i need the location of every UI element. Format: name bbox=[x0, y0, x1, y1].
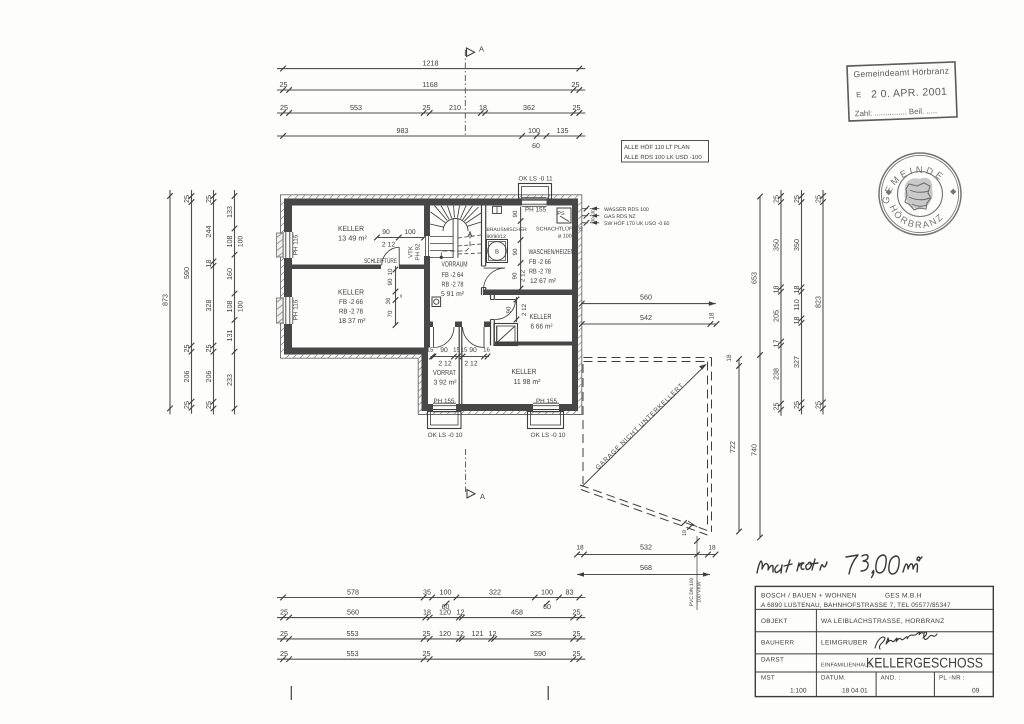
svg-text:25: 25 bbox=[771, 195, 780, 203]
svg-text:983: 983 bbox=[397, 126, 409, 135]
svg-text:120: 120 bbox=[439, 629, 451, 638]
svg-text:25: 25 bbox=[204, 401, 213, 409]
bottom dimension chain 25-553-25-120-12-121-12-325-25 bbox=[277, 629, 585, 642]
svg-text:327: 327 bbox=[792, 356, 801, 368]
door to KELLER 6.66 bbox=[495, 300, 516, 320]
svg-text:1:100: 1:100 bbox=[790, 688, 807, 695]
title block DATUM bbox=[821, 675, 868, 695]
svg-text:135: 135 bbox=[557, 126, 569, 135]
svg-text:322: 322 bbox=[489, 588, 501, 597]
svg-text:553: 553 bbox=[347, 629, 359, 638]
svg-text:328: 328 bbox=[204, 300, 213, 312]
title block PL-NR bbox=[939, 675, 980, 695]
svg-text:100: 100 bbox=[238, 236, 245, 248]
bottom dimension chain 25-560-18-120-12-458-25 bbox=[277, 608, 585, 621]
interior wall west of KELLER 6.66 (thin) bbox=[491, 295, 495, 346]
svg-text:18: 18 bbox=[709, 312, 716, 320]
left dimension chain 25-244-18-328-25-206-25 bbox=[204, 190, 216, 414]
garage corner drain detail bbox=[681, 520, 702, 610]
exterior wall east bbox=[572, 199, 578, 412]
svg-text:30: 30 bbox=[591, 217, 597, 223]
svg-text:350: 350 bbox=[792, 239, 801, 251]
PS shaft box at east wall bbox=[557, 208, 571, 223]
note box ALLE HOEF / ALLE RDS bbox=[622, 141, 709, 163]
room label KELLER 13.49 bbox=[338, 224, 368, 243]
fold mark right bbox=[547, 686, 549, 700]
window west wall upper PH116 bbox=[277, 232, 293, 258]
svg-text:90/90/12: 90/90/12 bbox=[487, 234, 507, 240]
svg-text:532: 532 bbox=[640, 543, 652, 552]
svg-text:PS: PS bbox=[557, 211, 565, 217]
svg-text:25: 25 bbox=[280, 80, 288, 89]
svg-text:BRAUSMISCHER: BRAUSMISCHER bbox=[487, 227, 528, 233]
window south wall (KELLER 11.98) PH155 bbox=[533, 403, 559, 412]
svg-text:25: 25 bbox=[572, 80, 580, 89]
svg-text:18 37 m²: 18 37 m² bbox=[339, 318, 367, 325]
svg-text:590: 590 bbox=[534, 649, 546, 658]
right dimension chain 653 / 740 bbox=[750, 194, 763, 541]
secondary window-width labels 100 bbox=[238, 236, 245, 313]
svg-text:VORRAUM: VORRAUM bbox=[442, 260, 468, 269]
svg-text:DATUM.: DATUM. bbox=[821, 675, 846, 682]
svg-text:108: 108 bbox=[225, 236, 234, 248]
svg-text:≈: ≈ bbox=[398, 294, 405, 298]
svg-text:120: 120 bbox=[439, 608, 451, 617]
svg-text:25: 25 bbox=[280, 629, 288, 638]
top dimension chain 983-100-135 bbox=[277, 126, 585, 139]
svg-text:FB -2 64: FB -2 64 bbox=[442, 272, 464, 279]
svg-text:90: 90 bbox=[512, 272, 519, 279]
svg-text:740: 740 bbox=[750, 444, 759, 456]
bottom dimension chain 578-35-100-322-100-83 bbox=[277, 588, 585, 601]
service connection GAS bbox=[582, 213, 636, 220]
svg-text:25: 25 bbox=[182, 345, 191, 353]
svg-text:25: 25 bbox=[204, 195, 213, 203]
svg-text:18: 18 bbox=[792, 286, 801, 294]
svg-text:35: 35 bbox=[423, 588, 431, 597]
svg-text:108: 108 bbox=[225, 301, 234, 313]
svg-text:90: 90 bbox=[512, 210, 519, 217]
svg-text:553: 553 bbox=[347, 649, 359, 658]
interior partition between VORRAT and KELLER 11.98 bbox=[459, 327, 462, 404]
svg-text:RB -2 78: RB -2 78 bbox=[442, 282, 464, 289]
svg-text:PH 155: PH 155 bbox=[525, 207, 547, 214]
svg-text:PVC DN 100: PVC DN 100 bbox=[689, 577, 695, 606]
section marker A (top) bbox=[465, 45, 484, 138]
svg-text:KELLER: KELLER bbox=[512, 367, 537, 376]
svg-text:18: 18 bbox=[726, 354, 733, 362]
svg-text:653: 653 bbox=[750, 272, 759, 284]
svg-text:VORRAT: VORRAT bbox=[433, 368, 456, 377]
svg-text:325: 325 bbox=[530, 629, 542, 638]
svg-text:SCHLEIFTÜRE: SCHLEIFTÜRE bbox=[364, 257, 397, 265]
svg-text:15: 15 bbox=[453, 347, 460, 354]
garage diagonal arrow line bbox=[582, 364, 707, 487]
svg-text:25: 25 bbox=[573, 103, 581, 112]
svg-text:83: 83 bbox=[566, 588, 574, 597]
svg-text:25: 25 bbox=[573, 629, 581, 638]
svg-text:RB -2 78: RB -2 78 bbox=[339, 309, 363, 316]
right dimension chain 25-350-18-110-18-327-25 bbox=[792, 190, 804, 414]
svg-text:206: 206 bbox=[204, 371, 213, 383]
fold mark left bbox=[290, 686, 292, 700]
svg-text:25: 25 bbox=[182, 195, 191, 203]
svg-text:FB -2 66: FB -2 66 bbox=[339, 299, 363, 306]
svg-text:10: 10 bbox=[387, 268, 394, 275]
svg-text:25: 25 bbox=[280, 608, 288, 617]
service connection SW bbox=[582, 220, 670, 227]
svg-text:25: 25 bbox=[813, 195, 822, 203]
svg-text:EINFAMILIENHAUS: EINFAMILIENHAUS bbox=[821, 663, 872, 669]
label shower 90/90/12 bbox=[487, 227, 528, 240]
svg-text:KELLER: KELLER bbox=[338, 224, 365, 233]
garage outline west edge dashed bbox=[582, 364, 584, 484]
room label KELLER 18.37 bbox=[338, 288, 366, 326]
svg-text:238: 238 bbox=[771, 368, 780, 380]
svg-text:90: 90 bbox=[440, 347, 448, 354]
title block row separators bbox=[755, 609, 993, 672]
svg-text:2 12: 2 12 bbox=[464, 361, 477, 368]
svg-text:100: 100 bbox=[404, 229, 416, 236]
vertical dim chain in KELLER 18.37 doorway bbox=[385, 266, 405, 328]
right dimension chain 25-823-25 bbox=[813, 190, 825, 414]
svg-text:25: 25 bbox=[423, 103, 431, 112]
bottom dimension chain 25-553-25-590-25 bbox=[277, 649, 585, 662]
svg-text:25: 25 bbox=[573, 608, 581, 617]
svg-text:ALLE RDS 100 LK USD -100: ALLE RDS 100 LK USD -100 bbox=[624, 154, 702, 161]
svg-text:131: 131 bbox=[225, 330, 234, 342]
room label KELLER 11.98 bbox=[512, 367, 542, 386]
svg-text:90: 90 bbox=[512, 248, 519, 255]
top dimension chain 25-1168-25 bbox=[277, 80, 585, 93]
svg-text:12: 12 bbox=[457, 608, 465, 617]
svg-text:160: 160 bbox=[225, 268, 234, 280]
interior load wall west of stair hall bbox=[424, 206, 430, 348]
left dimension chain 25-590-25-206-25 bbox=[182, 190, 194, 414]
svg-text:PH 155: PH 155 bbox=[433, 398, 455, 405]
svg-text:1168: 1168 bbox=[422, 80, 437, 89]
svg-text:60: 60 bbox=[532, 143, 540, 150]
svg-text:90: 90 bbox=[506, 306, 513, 313]
garage dim 568 bbox=[577, 563, 710, 577]
svg-text:BOSCH / BAUEN + WOHNEN: BOSCH / BAUEN + WOHNEN bbox=[761, 593, 857, 600]
svg-text:PH 155: PH 155 bbox=[536, 398, 558, 405]
svg-text:ø 100: ø 100 bbox=[558, 234, 572, 240]
garage outline east edge (double dashed) bbox=[708, 358, 712, 533]
svg-text:133: 133 bbox=[225, 206, 234, 218]
interior wall between KELLER 13.49 and KELLER 18.37 bbox=[292, 265, 381, 270]
service dim 30/30 rotated bbox=[591, 209, 597, 223]
svg-text:90: 90 bbox=[387, 278, 394, 285]
svg-text:30: 30 bbox=[591, 209, 597, 215]
dim chain doors VORRAT / KELLER 11.98 bbox=[427, 347, 491, 368]
svg-text:25: 25 bbox=[204, 345, 213, 353]
door stair-hall to boiler area bbox=[484, 268, 505, 289]
door VORRAUM to KELLER 11.98 bbox=[463, 327, 485, 348]
exterior wall south bbox=[422, 404, 579, 411]
left dimension chain 133-108-160-108-131-233 (window axes) bbox=[225, 190, 237, 414]
svg-text:578: 578 bbox=[347, 588, 359, 597]
svg-text:15: 15 bbox=[461, 347, 468, 354]
svg-text:25: 25 bbox=[182, 401, 191, 409]
svg-text:2 12: 2 12 bbox=[520, 269, 527, 282]
svg-text:18: 18 bbox=[479, 103, 487, 112]
svg-text:458: 458 bbox=[511, 608, 523, 617]
svg-text:25: 25 bbox=[280, 649, 288, 658]
svg-text:PH 116: PH 116 bbox=[293, 234, 300, 255]
svg-text:873: 873 bbox=[160, 294, 169, 306]
shower tray 90/90 with boiler circle B bbox=[487, 240, 508, 263]
svg-text:350: 350 bbox=[771, 239, 780, 251]
top dimension chain 25-553-25-210-18-362-25 bbox=[277, 103, 585, 116]
interior wall south of KELLER 6.66 bbox=[495, 342, 572, 346]
svg-text:GAS RDS NZ: GAS RDS NZ bbox=[604, 214, 636, 220]
floor drain in VORRAUM bbox=[432, 297, 441, 307]
exterior wall south of west wing bbox=[284, 348, 428, 355]
svg-text:OK LS -0 10: OK LS -0 10 bbox=[428, 432, 463, 439]
svg-text:A: A bbox=[480, 492, 485, 501]
svg-text:11 98 m²: 11 98 m² bbox=[514, 377, 542, 386]
garage vertical dim 722 with 18 bbox=[726, 354, 742, 534]
svg-text:90: 90 bbox=[382, 229, 390, 236]
svg-text:100: 100 bbox=[541, 588, 553, 597]
title block MST bbox=[761, 675, 807, 695]
stair flight with winders bbox=[430, 206, 481, 259]
exterior wall north bbox=[284, 199, 578, 206]
svg-text:1218: 1218 bbox=[423, 59, 439, 68]
svg-text:18: 18 bbox=[576, 545, 584, 552]
room label VORRAT 3.92 bbox=[433, 368, 457, 387]
svg-text:3 92 m²: 3 92 m² bbox=[434, 380, 458, 387]
svg-text:70: 70 bbox=[387, 310, 394, 317]
svg-text:FB -2 66: FB -2 66 bbox=[529, 259, 551, 266]
svg-text:590: 590 bbox=[182, 267, 191, 279]
svg-text:121: 121 bbox=[472, 629, 484, 638]
svg-text:WA LEIBLACHSTRASSE, HORBRANZ: WA LEIBLACHSTRASSE, HORBRANZ bbox=[821, 618, 945, 625]
garage outline south diagonal edge (double dashed) bbox=[580, 485, 712, 535]
dim 542+18 east bbox=[579, 312, 719, 327]
svg-text:MST: MST bbox=[761, 675, 775, 682]
window north wall (WASCHEN) bbox=[522, 198, 547, 207]
door SCHLEIFTUERE (swing into KELLER 13.49) bbox=[382, 247, 399, 265]
svg-text:15: 15 bbox=[427, 347, 434, 354]
garage outline north edge (double dashed) bbox=[584, 358, 712, 362]
service connection WASSER bbox=[582, 206, 649, 213]
door VORRAUM to VORRAT bbox=[434, 327, 455, 348]
svg-text:206: 206 bbox=[182, 371, 191, 383]
shaft box with diagonal (sump) bbox=[494, 324, 518, 346]
hatch opening VTK in stair west wall bbox=[424, 236, 430, 256]
svg-text:DARST: DARST bbox=[761, 657, 784, 664]
svg-text:GES M.B.H: GES M.B.H bbox=[885, 593, 922, 600]
dim 90/100 with 2.12 (SCHLEIFTUERE) bbox=[374, 229, 427, 249]
svg-text:KELLER: KELLER bbox=[338, 288, 365, 297]
svg-text:244: 244 bbox=[204, 226, 213, 238]
interior wall south of WASCHEN bbox=[483, 290, 572, 296]
top dimension chain total 1218 bbox=[277, 59, 585, 72]
svg-text:OK LS -0 10: OK LS -0 10 bbox=[531, 432, 566, 439]
dim 90/2.12 door KELLER 6.66 (rotated) bbox=[506, 297, 529, 323]
svg-text:17: 17 bbox=[771, 340, 780, 348]
svg-text:BAUHERR: BAUHERR bbox=[761, 640, 794, 647]
svg-text:362: 362 bbox=[523, 103, 535, 112]
svg-text:100: 100 bbox=[440, 588, 452, 597]
light well south under VORRAT window bbox=[428, 412, 462, 429]
svg-text:560: 560 bbox=[640, 293, 652, 302]
svg-text:16: 16 bbox=[483, 347, 490, 354]
room label VORRAUM bbox=[441, 260, 468, 298]
svg-text:RB -2 78: RB -2 78 bbox=[529, 269, 551, 276]
svg-text:100: 100 bbox=[528, 126, 540, 135]
right dimension chain 25-350-18-205-17-238-25 bbox=[771, 190, 783, 416]
svg-text:205: 205 bbox=[771, 310, 780, 322]
svg-text:233: 233 bbox=[225, 374, 234, 386]
svg-text:SCHACHTLÜFTER: SCHACHTLÜFTER bbox=[536, 226, 583, 233]
svg-text:18: 18 bbox=[204, 260, 213, 268]
svg-text:PL -NR :: PL -NR : bbox=[939, 675, 965, 682]
svg-text:2 12: 2 12 bbox=[521, 303, 528, 316]
svg-text:ALLE HÖF 110 LT PLAN: ALLE HÖF 110 LT PLAN bbox=[624, 143, 690, 151]
svg-text:OK LS -0 11: OK LS -0 11 bbox=[518, 176, 553, 183]
exterior wall hatching bbox=[281, 195, 582, 414]
svg-text:36: 36 bbox=[385, 297, 392, 304]
window west wall lower PH116 bbox=[277, 297, 293, 324]
exterior wall west bbox=[284, 199, 292, 355]
signature scribble bbox=[875, 632, 937, 649]
svg-text:6 66 m²: 6 66 m² bbox=[531, 324, 554, 331]
svg-text:100: 100 bbox=[238, 301, 245, 313]
svg-text:25: 25 bbox=[792, 195, 801, 203]
svg-text:25: 25 bbox=[423, 649, 431, 658]
window south wall (VORRAT) PH155 bbox=[433, 403, 456, 412]
svg-text:12: 12 bbox=[456, 629, 464, 638]
room label WASCHEN/HEIZEN bbox=[529, 249, 575, 285]
svg-text:KELLERGESCHOSS: KELLERGESCHOSS bbox=[866, 655, 983, 671]
section marker A (bottom) bbox=[466, 449, 485, 501]
svg-text:560: 560 bbox=[347, 608, 359, 617]
svg-text:25: 25 bbox=[792, 401, 801, 409]
handwritten note Nutzflaeche 73,00 m2 bbox=[757, 555, 922, 578]
svg-text:13 49 m²: 13 49 m² bbox=[338, 234, 368, 243]
svg-text:25: 25 bbox=[280, 103, 288, 112]
label SCHACHTLUEFTER bbox=[536, 226, 583, 240]
svg-text:OBJEKT: OBJEKT bbox=[761, 618, 788, 625]
svg-text:5 91 m²: 5 91 m² bbox=[441, 291, 465, 298]
svg-text:A: A bbox=[479, 45, 484, 54]
left dimension chain total 873 bbox=[160, 190, 172, 414]
svg-text:PH 92: PH 92 bbox=[415, 243, 422, 260]
svg-text:568: 568 bbox=[640, 563, 652, 572]
round seal GEMEINDE HOERBRANZ bbox=[879, 153, 961, 235]
svg-text:WASCHEN/HEIZEN: WASCHEN/HEIZEN bbox=[529, 249, 575, 256]
light well south under KELLER window bbox=[528, 412, 564, 429]
svg-text:100 VKW: 100 VKW bbox=[697, 581, 703, 602]
svg-text:18: 18 bbox=[708, 545, 716, 552]
garage dim 18-532-18 bbox=[574, 543, 718, 558]
title block frame bbox=[755, 586, 993, 696]
svg-text:553: 553 bbox=[350, 103, 362, 112]
label VTK PH 92 (rotated) bbox=[408, 243, 422, 260]
svg-text:LEIMGRUBER: LEIMGRUBER bbox=[821, 640, 868, 647]
svg-text:25: 25 bbox=[573, 649, 581, 658]
svg-text:E: E bbox=[856, 90, 861, 99]
svg-text:2 12: 2 12 bbox=[382, 242, 395, 249]
svg-text:60: 60 bbox=[543, 604, 551, 611]
room label KELLER 6.66 bbox=[530, 312, 554, 331]
electrical box on north wall bbox=[493, 206, 502, 213]
svg-text:VTK: VTK bbox=[408, 246, 415, 258]
svg-text:25: 25 bbox=[771, 403, 780, 411]
svg-text:PH 116: PH 116 bbox=[293, 299, 300, 320]
svg-text:B: B bbox=[495, 249, 499, 256]
title block column separators bbox=[816, 609, 934, 696]
interior wall south of VORRAUM bbox=[430, 322, 433, 328]
svg-text:09: 09 bbox=[972, 688, 980, 695]
svg-text:WASSER RDS 100: WASSER RDS 100 bbox=[604, 207, 649, 213]
sub labels 60 on window axes bbox=[442, 601, 551, 611]
svg-text:25: 25 bbox=[423, 629, 431, 638]
svg-text:18: 18 bbox=[682, 530, 688, 536]
interior wall east of stair (thin partition) bbox=[482, 206, 486, 296]
svg-text:110: 110 bbox=[792, 299, 801, 310]
svg-text:SW HÖF 170 UK USO -0 60: SW HÖF 170 UK USO -0 60 bbox=[604, 220, 670, 227]
svg-text:2 12: 2 12 bbox=[438, 361, 451, 368]
outer insulation outline bbox=[281, 195, 582, 415]
svg-text:542: 542 bbox=[640, 313, 652, 322]
svg-text:12 67 m²: 12 67 m² bbox=[530, 278, 557, 285]
svg-text:18: 18 bbox=[423, 608, 431, 617]
svg-text:722: 722 bbox=[728, 441, 737, 453]
svg-text:18: 18 bbox=[792, 317, 801, 325]
svg-text:18 04 01: 18 04 01 bbox=[842, 688, 868, 695]
svg-text:823: 823 bbox=[813, 296, 822, 308]
svg-text:A 6890 LUSTENAU, BAHNHOFSTRA: A 6890 LUSTENAU, BAHNHOFSTRASSE 7, TEL 0… bbox=[761, 602, 951, 609]
dim 560 east bbox=[579, 293, 716, 307]
svg-text:KELLER: KELLER bbox=[530, 312, 552, 321]
light well OK LS -0.11 (north) bbox=[519, 184, 552, 200]
vertical dim line inside WASCHEN bbox=[512, 207, 527, 294]
svg-text:210: 210 bbox=[449, 103, 461, 112]
exterior wall west of south wing (VORRAT) bbox=[422, 348, 429, 412]
svg-text:25: 25 bbox=[813, 401, 822, 409]
svg-text:18: 18 bbox=[771, 286, 780, 294]
svg-text:AND. :: AND. : bbox=[881, 675, 901, 682]
svg-text:12: 12 bbox=[489, 629, 497, 638]
rubber stamp Gemeindeamt Hoerbranz bbox=[847, 62, 957, 121]
svg-text:90: 90 bbox=[469, 347, 477, 354]
